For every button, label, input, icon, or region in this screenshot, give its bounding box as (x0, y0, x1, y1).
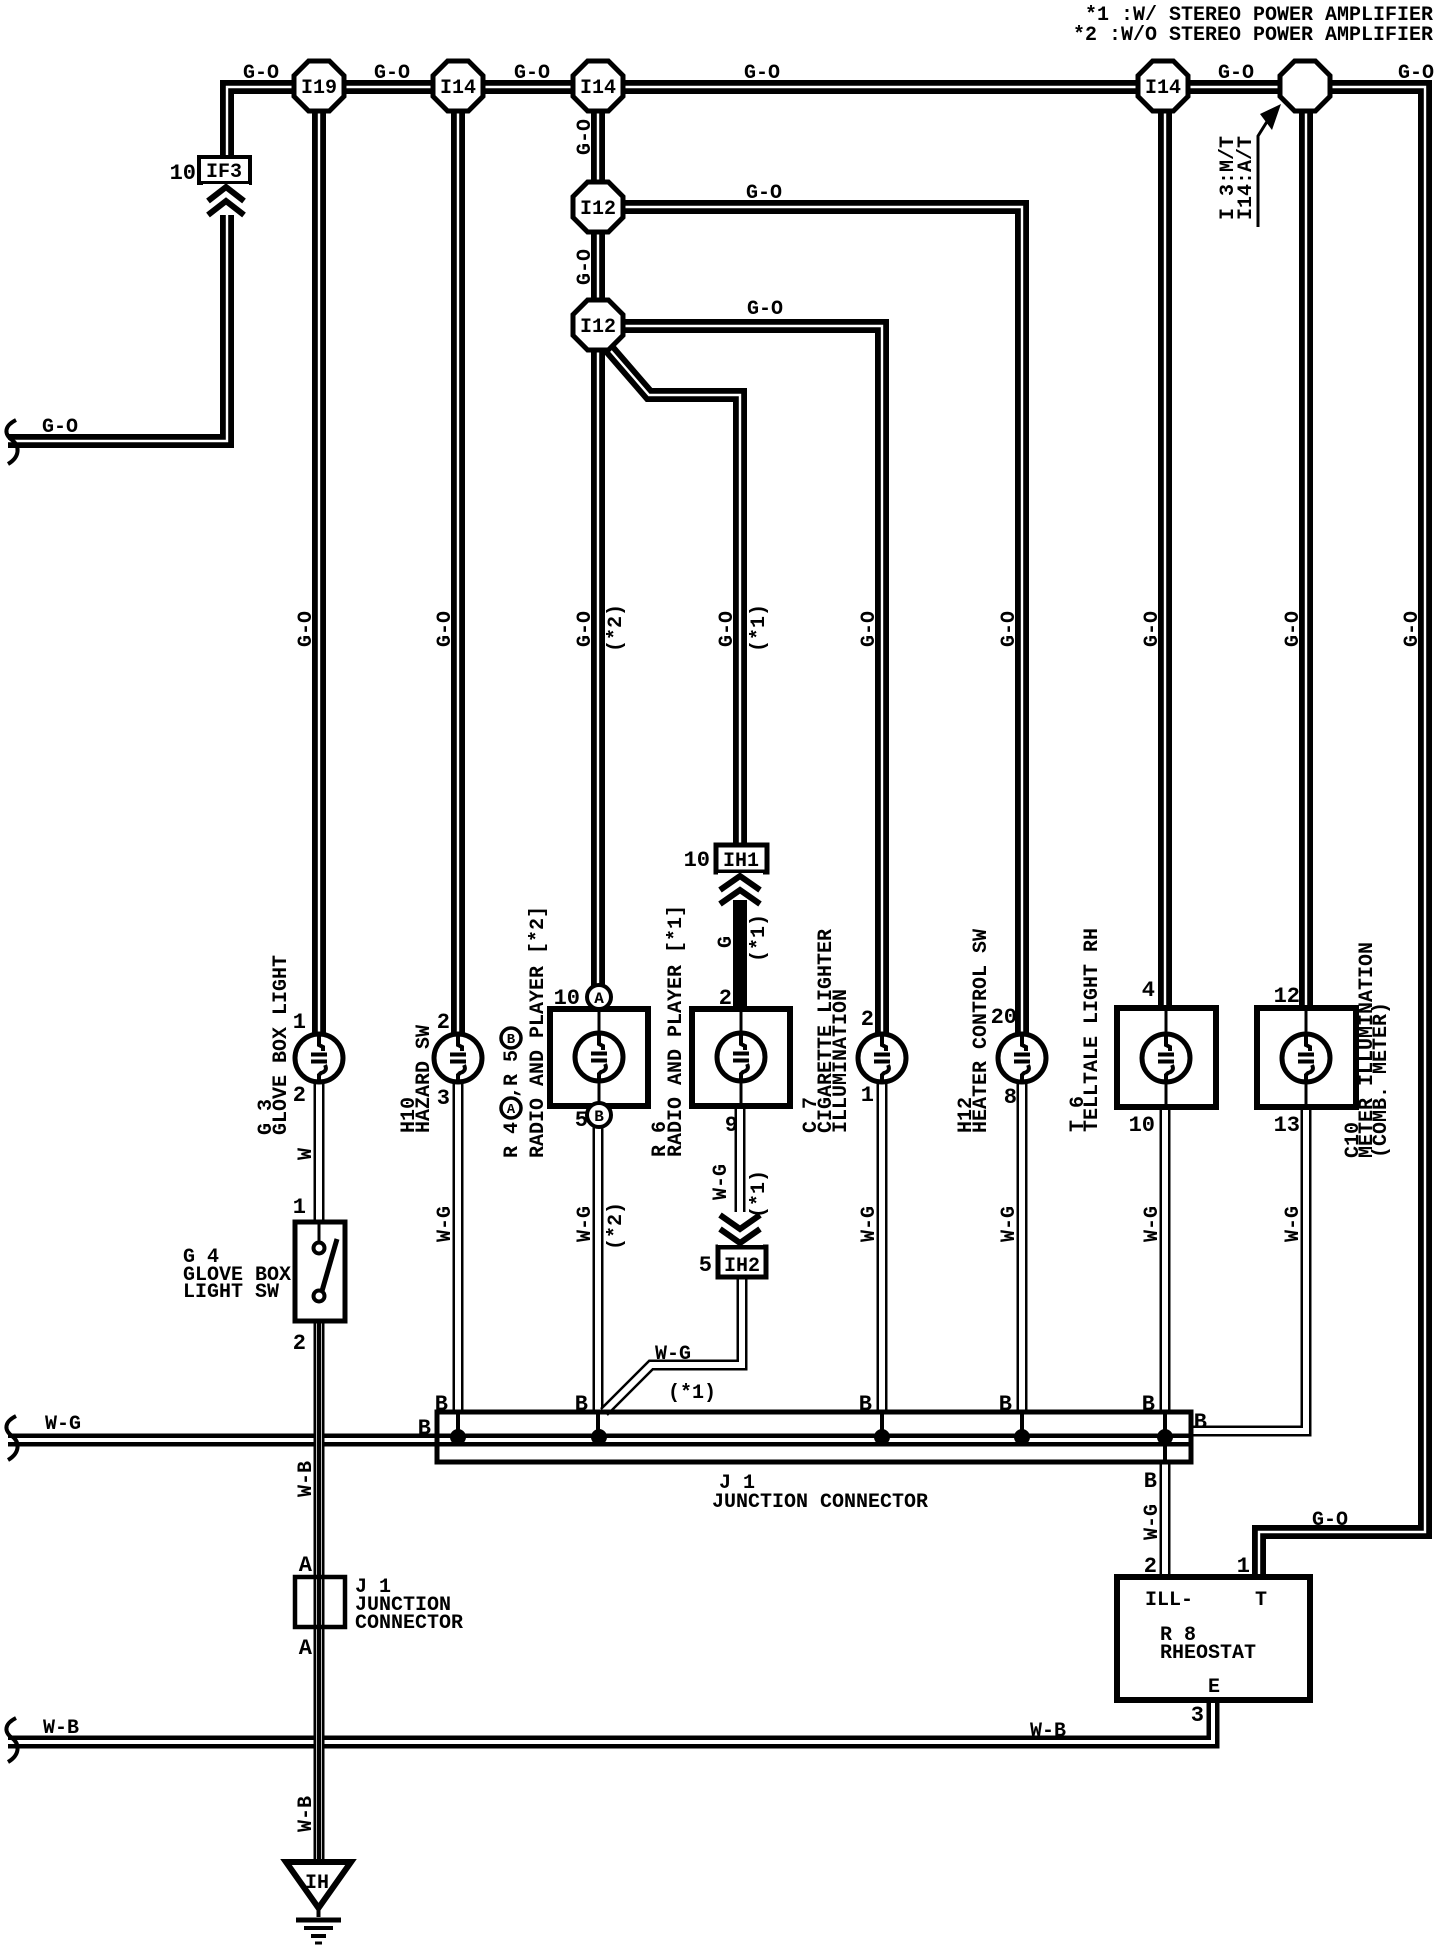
junction connector J1 small box (295, 1577, 345, 1627)
rheostat R8 box (1117, 1577, 1310, 1700)
svg-text:IH2: IH2 (724, 1255, 760, 1278)
wire W-G (*1) from IH2 to junction connector J1 (604, 1277, 742, 1412)
svg-text:A: A (507, 1102, 516, 1118)
svg-text:W: W (295, 1148, 318, 1160)
arrow down into IH2 (718, 1212, 763, 1245)
svg-text:I14:A/T: I14:A/T (1235, 136, 1258, 220)
svg-text:G-O: G-O (747, 298, 783, 321)
svg-text:B: B (594, 1108, 604, 1126)
junction dot at J1 for radio (591, 1429, 607, 1445)
svg-text:10: 10 (170, 161, 196, 186)
wire W-G from H10 to junction connector J1 (453, 1081, 464, 1437)
svg-text:JUNCTION CONNECTOR: JUNCTION CONNECTOR (712, 1491, 928, 1514)
svg-text:9: 9 (725, 1113, 738, 1138)
svg-text:A: A (594, 990, 604, 1008)
svg-text:W-B: W-B (43, 1717, 79, 1740)
junction dot at J1 for H10 (450, 1429, 466, 1445)
svg-text:G-O: G-O (574, 611, 597, 647)
connector octagon I14 (2) (573, 61, 623, 111)
svg-text:10: 10 (554, 986, 580, 1011)
lamp G3 glove box light (295, 1034, 343, 1082)
connector octagon I3/I14 unlabeled (1280, 61, 1330, 111)
svg-text:2: 2 (293, 1331, 306, 1356)
junction connector J1 long box (437, 1412, 1191, 1462)
svg-text:I12: I12 (580, 316, 616, 339)
svg-text:G-O: G-O (746, 182, 782, 205)
arrow up into IH1 (718, 873, 763, 904)
svg-text:13: 13 (1274, 1113, 1300, 1138)
svg-text:W-G: W-G (574, 1206, 597, 1242)
svg-text:W-G: W-G (858, 1206, 881, 1242)
svg-text:G-O: G-O (716, 611, 739, 647)
svg-text:HAZARD SW: HAZARD SW (413, 1025, 436, 1133)
arrow up into IF3 (203, 184, 249, 215)
svg-text:G-O: G-O (744, 62, 780, 85)
svg-text:4: 4 (1142, 978, 1155, 1003)
svg-text:G-O: G-O (998, 611, 1021, 647)
svg-text:G-O: G-O (434, 611, 457, 647)
svg-text:I19: I19 (301, 77, 337, 100)
svg-text:5: 5 (699, 1253, 712, 1278)
svg-text:(*2): (*2) (605, 1202, 628, 1250)
svg-text:(*2): (*2) (605, 604, 628, 652)
svg-text:RADIO AND PLAYER [*2]: RADIO AND PLAYER [*2] (527, 906, 550, 1158)
svg-text:W-G: W-G (45, 1413, 81, 1436)
svg-text:G-O: G-O (1141, 611, 1164, 647)
svg-text:(*1): (*1) (748, 914, 771, 962)
svg-text:B: B (435, 1392, 448, 1417)
wire G-O from I14 to hazard switch H10 (451, 94, 465, 1035)
lamp H12 heater control switch illumination (998, 1034, 1046, 1082)
wire W-G (*1) from radio R6 pin 9 to connector IH2 (735, 1106, 746, 1244)
svg-text:W-G: W-G (655, 1343, 691, 1366)
svg-text:10: 10 (684, 848, 710, 873)
svg-text:2: 2 (719, 986, 732, 1011)
svg-text:TELLTALE LIGHT RH: TELLTALE LIGHT RH (1081, 928, 1104, 1132)
wire G-O from I14 to I12 (591, 111, 605, 183)
radio R4/R5 box with lamp (550, 1009, 648, 1106)
svg-text:2: 2 (1144, 1554, 1157, 1579)
svg-text:B: B (1142, 1392, 1155, 1417)
svg-text:B: B (575, 1392, 588, 1417)
glove box light switch G4 (295, 1222, 345, 1321)
wire G-O from I12 to cigarette lighter illumination C7 (620, 326, 882, 1035)
wire G-O from I12 to radio R4/R5 pin A (591, 231, 605, 986)
wire W-B horizontal bottom to rheostat pin 3 (8, 1701, 1213, 1742)
wire W-G from J1 to rheostat R8 pin 2 (1160, 1460, 1171, 1579)
wire G-O from I12 to heater control switch H12 (620, 207, 1022, 1035)
telltale light T6 box with lamp (1117, 1008, 1216, 1107)
svg-text:G-O: G-O (574, 119, 597, 155)
svg-text:8: 8 (1004, 1085, 1017, 1110)
connector IH2 box (718, 1247, 766, 1277)
svg-text:IF3: IF3 (206, 161, 242, 184)
svg-text:E: E (1208, 1676, 1220, 1699)
svg-text:(COMB. METER): (COMB. METER) (1370, 1002, 1393, 1158)
svg-text:B: B (999, 1392, 1012, 1417)
svg-text:1: 1 (861, 1083, 874, 1108)
svg-text:B: B (859, 1392, 872, 1417)
svg-text:W-B: W-B (295, 1796, 318, 1832)
svg-text:*2 :W/O STEREO POWER AMPLIFIER: *2 :W/O STEREO POWER AMPLIFIER (1073, 24, 1433, 47)
svg-text:A: A (299, 1553, 313, 1578)
svg-text:W-G: W-G (434, 1206, 457, 1242)
svg-text:I12: I12 (580, 198, 616, 221)
wire W-G from H12 to junction connector J1 (1017, 1081, 1028, 1437)
wire G (*1) thick from IH1 to radio R6 pin 2 (733, 892, 747, 1011)
radio R4/R5 pin B circle (587, 1103, 611, 1127)
svg-text:ILLUMINATION: ILLUMINATION (830, 989, 853, 1133)
junction dot at J1 for C7 (874, 1429, 890, 1445)
svg-text:ILL-: ILL- (1145, 1589, 1193, 1612)
radio R6 box with lamp (692, 1009, 790, 1106)
connector octagon I14 (3) (1138, 61, 1188, 111)
junction dot at J1 for H12 (1014, 1429, 1030, 1445)
svg-text:2: 2 (437, 1010, 450, 1035)
wire G-O from I14 to telltale light T6 (1158, 94, 1172, 1010)
connector break squiggle G-O left (6, 420, 17, 464)
svg-text:G-O: G-O (374, 62, 410, 85)
wire G-O (*1) from I12 to connector IH1 (604, 343, 740, 847)
svg-text:W-G: W-G (998, 1206, 1021, 1242)
connector octagon I14 (1) (433, 61, 483, 111)
svg-text:IH1: IH1 (723, 850, 759, 873)
svg-text:LIGHT SW: LIGHT SW (183, 1281, 279, 1304)
svg-text:G-O: G-O (243, 62, 279, 85)
wire W-B from G4 through J1 to ground IH (314, 1321, 325, 1866)
wire G-O main bus: left tail, top bus, right drop to rheostat pin 1 (8, 87, 1425, 1579)
radio R4/R5 pin A circle (587, 985, 611, 1009)
svg-text:G-O: G-O (514, 62, 550, 85)
wire W from G3 to glove box light switch G4 (314, 1081, 325, 1222)
svg-text:RADIO AND PLAYER [*1]: RADIO AND PLAYER [*1] (665, 905, 688, 1157)
svg-text:I14: I14 (1145, 77, 1181, 100)
svg-text:B: B (418, 1416, 431, 1441)
wire W-G from C10 pin 13 to junction connector J1 right end (1193, 1105, 1306, 1431)
connector octagon I19 (294, 61, 344, 111)
svg-text:RHEOSTAT: RHEOSTAT (1160, 1642, 1256, 1665)
wire G-O from I19 to glove box light G3 (312, 94, 326, 1035)
svg-text:G-O: G-O (1218, 62, 1254, 85)
svg-text:G-O: G-O (295, 611, 318, 647)
svg-text:I14: I14 (580, 77, 616, 100)
meter illumination C10 box with lamp (1257, 1008, 1356, 1107)
svg-text:(*1): (*1) (748, 1170, 771, 1218)
svg-text:1: 1 (293, 1010, 306, 1035)
svg-text:G-O: G-O (42, 416, 78, 439)
svg-text:B: B (507, 1032, 516, 1048)
svg-text:(*1): (*1) (668, 1382, 716, 1405)
svg-text:I14: I14 (440, 77, 476, 100)
wire W-G from radio R4/R5 pin B to junction connector J1 (593, 1126, 604, 1437)
svg-text:5: 5 (575, 1108, 588, 1133)
connector break squiggle W-G left (6, 1416, 17, 1460)
arrow annotation to octagon I3:M/T I14:A/T (1258, 104, 1281, 227)
wire W-G horizontal to junction connector J1 (8, 1434, 1189, 1447)
svg-text:G-O: G-O (1312, 1509, 1348, 1532)
svg-text:G-O: G-O (858, 611, 881, 647)
svg-text:G: G (715, 936, 738, 948)
connector octagon I12 (1) (573, 182, 623, 232)
connector octagon I12 (2) (573, 300, 623, 350)
svg-text:1: 1 (1237, 1554, 1250, 1579)
svg-text:2: 2 (861, 1007, 874, 1032)
ground IH triangle (286, 1862, 351, 1943)
svg-text:W-B: W-B (295, 1461, 318, 1497)
svg-text:W-G: W-G (710, 1164, 733, 1200)
svg-text:T: T (1255, 1589, 1267, 1612)
lamp H10 hazard switch illumination (434, 1034, 482, 1082)
connector break squiggle W-B left (6, 1718, 17, 1762)
svg-text:W-B: W-B (1030, 1720, 1066, 1743)
svg-text:G-O: G-O (1401, 611, 1424, 647)
wire W-G from T6 to junction connector J1 (1160, 1105, 1171, 1462)
svg-text:IH: IH (305, 1872, 329, 1895)
svg-text:B: B (1194, 1410, 1207, 1435)
svg-text:3: 3 (1191, 1703, 1204, 1728)
svg-text:1: 1 (293, 1195, 306, 1220)
connector IF3 box (199, 157, 250, 183)
svg-text:(*1): (*1) (748, 604, 771, 652)
svg-text:3: 3 (437, 1086, 450, 1111)
svg-text:GLOVE BOX LIGHT: GLOVE BOX LIGHT (270, 955, 293, 1135)
connector IH1 box (716, 845, 767, 872)
svg-text:G-O: G-O (574, 249, 597, 285)
svg-text:12: 12 (1274, 984, 1300, 1009)
wire G-O from connector octagon to meter illumination C10 pin 12 (1299, 110, 1313, 1010)
svg-text:G-O: G-O (1282, 611, 1305, 647)
svg-text:W-G: W-G (1141, 1206, 1164, 1242)
junction dot at J1 for T6 (1157, 1429, 1173, 1445)
svg-text:10: 10 (1129, 1113, 1155, 1138)
svg-text:HEATER CONTROL SW: HEATER CONTROL SW (970, 929, 993, 1133)
svg-text:B: B (1144, 1469, 1157, 1494)
lamp C7 cigarette lighter illumination (858, 1034, 906, 1082)
svg-text:W-G: W-G (1141, 1504, 1164, 1540)
svg-text:20: 20 (991, 1005, 1017, 1030)
svg-text:CONNECTOR: CONNECTOR (355, 1612, 463, 1635)
svg-text:A: A (299, 1636, 313, 1661)
svg-text:2: 2 (293, 1083, 306, 1108)
wire W-G from C7 to junction connector J1 (877, 1081, 888, 1437)
svg-text:W-G: W-G (1282, 1206, 1305, 1242)
svg-text:G-O: G-O (1398, 62, 1434, 85)
